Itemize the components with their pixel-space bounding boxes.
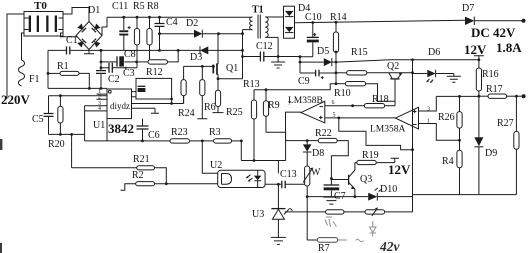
electrolytic capacitor C8: [100, 49, 138, 69]
dual diode D4: [284, 3, 311, 38]
svg-text:U3: U3: [252, 209, 264, 220]
wire R13/R9 top rail: [254, 84, 336, 91]
resistor R5: [133, 1, 145, 68]
12V terminal top: [464, 42, 487, 68]
transformer T1: [243, 5, 284, 39]
resistor R26: [436, 95, 479, 142]
resistor R10: [334, 82, 395, 102]
svg-text:C4: C4: [166, 17, 178, 28]
IC U1 UC3842: [93, 89, 134, 136]
svg-text:DC 42V: DC 42V: [471, 25, 516, 40]
svg-text:D5: D5: [317, 46, 329, 57]
svg-text:6: 6: [332, 100, 335, 106]
capacitor C6: [137, 119, 160, 141]
svg-text:C9: C9: [298, 76, 310, 87]
svg-text:R13: R13: [243, 79, 260, 90]
svg-text:T0: T0: [34, 0, 47, 12]
svg-text:C12: C12: [256, 41, 273, 52]
resistor R25: [213, 79, 243, 118]
bridge rectifier D1: [76, 5, 102, 50]
wire Q1 gate to R24/R6: [184, 65, 214, 68]
svg-text:C6: C6: [148, 130, 160, 141]
resistor R4: [442, 140, 462, 194]
U1 left pin wires: [85, 89, 107, 112]
output label DC 42V 1.8A: [471, 25, 522, 55]
bottom rail left with R23 R3: [85, 140, 204, 143]
resistor R20: [48, 94, 65, 150]
svg-text:R2: R2: [132, 170, 144, 181]
svg-text:R24: R24: [178, 108, 195, 119]
resistor R16: [476, 68, 498, 137]
diode D8: [303, 139, 324, 159]
resistor R3: [209, 127, 241, 143]
bridge negative stub: [84, 50, 94, 54]
wire U2 left pins: [202, 141, 217, 173]
wire C12 node to C10/D5: [278, 55, 313, 63]
svg-text:D1: D1: [88, 5, 100, 16]
transistor Q3: [331, 163, 372, 197]
svg-text:R3: R3: [209, 127, 221, 138]
svg-text:Q2: Q2: [387, 61, 399, 72]
svg-text:R14: R14: [330, 12, 347, 23]
op-amp LM358A: [370, 107, 430, 135]
U1 pin8 loop and bypass cap: [132, 78, 174, 103]
svg-text:D10: D10: [380, 184, 397, 195]
wire mains lower rail / column x48: [48, 50, 107, 88]
svg-text:D9: D9: [485, 148, 497, 159]
svg-text:42v: 42v: [379, 239, 401, 253]
svg-text:Q3: Q3: [360, 174, 372, 185]
svg-text:R20: R20: [48, 139, 65, 150]
capacitor C5: [32, 96, 54, 135]
diode D9: [474, 137, 497, 194]
wire feedback row to U2: [240, 140, 286, 174]
diode D2: [160, 18, 243, 38]
trimmer on reference rail: [365, 207, 385, 216]
svg-text:R22: R22: [315, 128, 332, 139]
svg-text:R12: R12: [146, 67, 163, 78]
svg-text:R6: R6: [204, 102, 216, 113]
resistor R15: [336, 47, 414, 75]
resistor R24: [178, 66, 195, 119]
resistor R27: [497, 96, 519, 194]
resistor R23: [170, 127, 214, 143]
MOSFET Q1: [212, 34, 238, 80]
resistor R22: [286, 128, 349, 185]
svg-text:D8: D8: [312, 148, 324, 159]
faint stamp marks: [325, 217, 364, 242]
svg-text:12V: 12V: [464, 42, 487, 57]
svg-text:R19: R19: [362, 150, 379, 161]
electrolytic capacitor C11: [112, 1, 131, 50]
capacitor C4: [155, 16, 178, 52]
resistor R9: [263, 90, 285, 161]
secondary DC rail: [295, 20, 466, 24]
svg-text:LM358A: LM358A: [370, 125, 406, 135]
svg-text:R10: R10: [334, 88, 351, 99]
svg-text:R21: R21: [133, 154, 150, 165]
svg-text:D2: D2: [186, 18, 198, 29]
svg-text:C3: C3: [123, 68, 135, 79]
wire bridge to top rail: [102, 17, 107, 35]
wire reference rail: [285, 208, 413, 212]
wire LM358B pin5 to LM358A output: [325, 117, 413, 150]
electrolytic capacitor C10: [305, 12, 322, 57]
svg-text:3: 3: [427, 107, 430, 113]
svg-text:Q1: Q1: [226, 63, 238, 74]
svg-text:R15: R15: [351, 47, 368, 58]
shunt regulator U3 TL431: [252, 184, 290, 237]
svg-text:C5: C5: [32, 114, 44, 125]
resistor R14: [330, 12, 347, 85]
EMI filter transformer T0: [24, 0, 63, 36]
svg-text:R5: R5: [133, 1, 145, 12]
ground under C7: [323, 197, 339, 204]
svg-text:U1: U1: [93, 120, 105, 131]
resistor R12: [137, 49, 180, 78]
resistor R7 (faint): [306, 195, 347, 253]
svg-text:R1: R1: [57, 61, 69, 72]
svg-text:C10: C10: [305, 12, 322, 23]
scan edge artifacts: [0, 139, 2, 253]
svg-text:T1: T1: [252, 5, 264, 16]
electrolytic capacitor C7: [324, 185, 346, 202]
ground under U3: [271, 237, 286, 244]
svg-text:1.8A: 1.8A: [496, 40, 522, 55]
svg-text:D6: D6: [428, 47, 440, 58]
svg-text:C1: C1: [66, 35, 78, 46]
capacitor C13: [265, 169, 307, 188]
top DC rail: [107, 16, 252, 18]
svg-text:R4: R4: [442, 156, 454, 167]
svg-text:diydz: diydz: [110, 101, 130, 111]
wire C5/R20 bottom: [49, 133, 85, 136]
svg-text:R25: R25: [226, 107, 243, 118]
op-amp LM358B: [288, 96, 336, 123]
capacitor C2: [96, 49, 120, 90]
svg-text:R23: R23: [171, 127, 188, 138]
optocoupler U2: [210, 160, 265, 188]
12V terminal at R19: [388, 158, 411, 177]
U1 pin5 stub: [132, 108, 160, 113]
svg-text:R8: R8: [147, 1, 159, 12]
resistor R6: [197, 66, 215, 118]
svg-text:R9: R9: [268, 100, 280, 111]
capacitor C1: [48, 35, 195, 55]
diode D10: [307, 184, 412, 201]
resistor R2: [121, 170, 218, 190]
svg-text:C11: C11: [112, 1, 128, 12]
resistor R1: [47, 61, 91, 90]
electrolytic capacitor C9: [298, 62, 336, 87]
faint zener (stamp): [370, 221, 377, 237]
wire LM358B output: [286, 112, 302, 141]
svg-text:D7: D7: [462, 3, 474, 14]
transistor Q2: [387, 61, 402, 106]
svg-text:C2: C2: [108, 74, 120, 85]
svg-text:220V: 220V: [1, 92, 31, 107]
ground under T1 secondary: [271, 37, 285, 68]
svg-text:U2: U2: [210, 160, 222, 171]
diode D5: [300, 46, 336, 66]
diode D7: [462, 3, 526, 25]
svg-text:R17: R17: [486, 84, 503, 95]
svg-text:R27: R27: [497, 118, 514, 129]
diode D3: [100, 46, 243, 63]
capacitor C12: [243, 41, 279, 62]
svg-text:R16: R16: [482, 69, 499, 80]
resistor R19: [355, 150, 395, 165]
resistor R8: [147, 1, 159, 62]
wire U1 vcc row: [49, 96, 108, 141]
resistor R17: [479, 84, 526, 98]
fuse F1: [19, 60, 40, 86]
wire snubber column to Q1 source: [218, 30, 244, 79]
resistor on reference rail: [326, 210, 345, 214]
wire LM358B pin6: [325, 105, 353, 107]
svg-text:4: 4: [98, 106, 101, 112]
bottom right rail: [413, 194, 517, 196]
wire T0 to bridge and mains: [7, 8, 89, 99]
svg-text:12V: 12V: [388, 162, 411, 177]
svg-text:C13: C13: [280, 169, 297, 180]
svg-text:R26: R26: [438, 112, 455, 123]
potentiometer W: [303, 152, 321, 196]
svg-text:C8: C8: [124, 49, 136, 60]
svg-text:7: 7: [288, 101, 291, 107]
wire 12V supply rail: [336, 58, 480, 62]
resistor R21: [72, 134, 167, 183]
svg-text:3842: 3842: [108, 121, 134, 136]
wire LM358A inputs: [419, 96, 460, 140]
ground at D6: [447, 74, 461, 83]
resistor R13: [243, 79, 260, 161]
svg-text:R7: R7: [318, 243, 330, 253]
wire U1 pin6 row: [132, 96, 184, 105]
svg-text:F1: F1: [29, 74, 40, 85]
capacitor C3: [100, 63, 137, 79]
wire 12V zener branch column: [411, 60, 414, 212]
LED D6: [413, 47, 454, 83]
resistor R18: [351, 94, 395, 108]
